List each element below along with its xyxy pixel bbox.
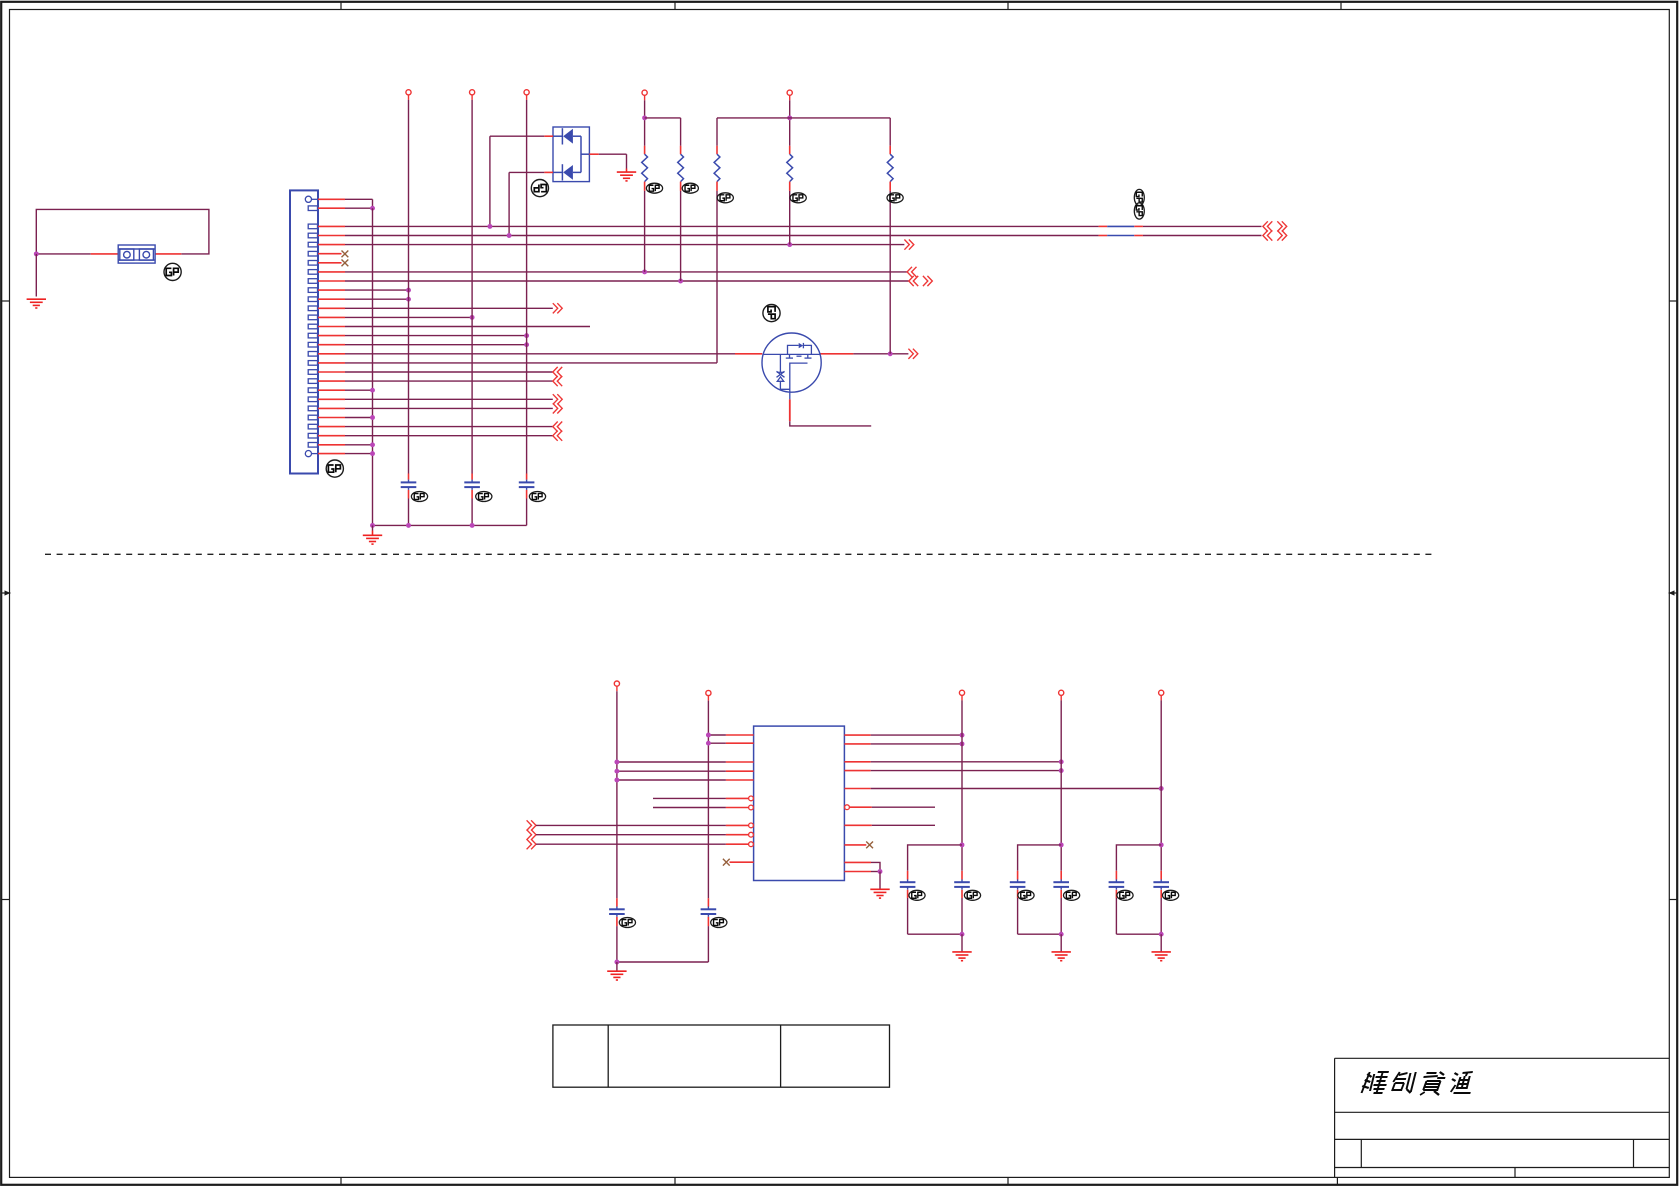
node pair2 bracket bbox=[1059, 842, 1064, 847]
wire pair2 top bracket bbox=[1018, 845, 1062, 871]
node row453-busA bbox=[370, 451, 375, 456]
label GP diode (rotated) bbox=[531, 180, 548, 197]
terminal circle bus C bbox=[470, 90, 475, 95]
capacitor CV1 bbox=[616, 907, 618, 910]
frame tick right 2 bbox=[1669, 899, 1677, 901]
chevron bus3 output bbox=[904, 240, 909, 250]
node V3 row735 bbox=[960, 733, 965, 738]
wire rail ground stem bbox=[372, 525, 374, 530]
wire U1 right row 743.9 bbox=[844, 743, 870, 745]
wire pin row 253.7 no-connect bbox=[318, 253, 342, 255]
wire diode input 2 bbox=[544, 171, 553, 173]
wire R5 bottom bbox=[889, 191, 891, 354]
ground pair1 bbox=[952, 952, 971, 961]
wire pin row 417.5 bbox=[318, 417, 345, 419]
wire pin row 426.6 input bbox=[318, 426, 345, 428]
connector CN1 body bbox=[290, 190, 318, 473]
connector pin box 4 bbox=[308, 233, 317, 238]
connector pin box 24 bbox=[308, 415, 317, 420]
connector pin box 21 bbox=[308, 388, 317, 393]
wire pair3 main vertical bbox=[1160, 700, 1162, 870]
wire left segment to jumper bbox=[36, 253, 90, 255]
connector pin box 23 bbox=[308, 406, 317, 411]
ground top-left bbox=[27, 299, 46, 308]
wire pin row 399.3 output bbox=[318, 398, 345, 400]
node V2 row735 bbox=[706, 733, 711, 738]
label GP pair1 left bbox=[909, 890, 925, 900]
wire pin row 408.4 output bbox=[318, 407, 345, 409]
terminal circle R4 bbox=[787, 90, 792, 95]
chevron mosfet output bbox=[908, 349, 913, 359]
capacitor CB bbox=[408, 480, 410, 483]
label GP cap D bbox=[411, 492, 427, 502]
label GP pair1 right bbox=[964, 890, 980, 900]
wire bus2 horizontal bbox=[318, 235, 345, 237]
wire U1 right row 761.8 bbox=[844, 761, 870, 763]
wire U1 pin row 825.4 from input chevron bbox=[527, 820, 532, 830]
ground left pair bbox=[607, 971, 626, 980]
node bus5-R2 bbox=[678, 279, 683, 284]
connector pin box 6 bbox=[308, 251, 317, 256]
chevron row 435.7 input bbox=[553, 431, 558, 441]
capacitor pair2 right bbox=[1060, 879, 1062, 882]
wire pair1 ground stem bbox=[961, 934, 963, 951]
dual diode D1 box bbox=[553, 127, 589, 182]
wire pin2 row bbox=[318, 207, 345, 209]
capacitor pair2 left bbox=[1017, 871, 1019, 880]
frame tick top 2 bbox=[674, 2, 676, 10]
wire pin row 290.1 bbox=[318, 289, 345, 291]
capacitor pair3 right bbox=[1160, 879, 1162, 882]
chevron row 408.4 output bbox=[553, 403, 558, 413]
wire pin row 372.0 input bbox=[318, 371, 345, 373]
connector pin box 2 bbox=[308, 206, 317, 211]
wire to ground top-left bbox=[35, 254, 37, 297]
wire bus5 row bbox=[318, 280, 345, 282]
connector pin last circle bbox=[305, 451, 318, 457]
wire R4 top vertical bbox=[789, 100, 791, 146]
wire U1 right row 871.5 bbox=[844, 871, 871, 873]
resistor R2 bbox=[680, 146, 682, 154]
node pair1 bottom bbox=[960, 932, 965, 937]
node rail A bbox=[370, 523, 375, 528]
wire R4 bottom bbox=[789, 191, 791, 245]
wire pin row 444.8 bbox=[318, 444, 345, 446]
node left rail bbox=[614, 960, 619, 965]
node row444-busA bbox=[370, 442, 375, 447]
wire bus1 horizontal bbox=[318, 225, 345, 227]
node V2 row743 bbox=[706, 741, 711, 746]
connector pin box 22 bbox=[308, 397, 317, 402]
label GP R5 bbox=[887, 193, 903, 203]
resistor R4 bbox=[789, 146, 791, 154]
node row344-busD bbox=[524, 342, 529, 347]
wire U1 ground stem bbox=[879, 872, 881, 889]
wire bus D vertical bbox=[526, 100, 528, 474]
terminal circle V1 bbox=[614, 681, 619, 686]
chevron bus2 bidirectional bbox=[1263, 230, 1268, 240]
wire pair3 top bracket bbox=[1116, 845, 1161, 871]
frame tick left 1 bbox=[2, 300, 10, 302]
chevron bus5 output bbox=[923, 276, 928, 286]
wire bus4 row bbox=[318, 271, 345, 273]
ground pair3 bbox=[1152, 952, 1171, 961]
label GP R3 bbox=[717, 193, 733, 203]
wire U1 right row 825.3 bbox=[844, 824, 871, 826]
wire pin row 390.2 bbox=[318, 389, 345, 391]
connector pin box 17 bbox=[308, 352, 317, 357]
wire pin row 308.3 output bbox=[318, 307, 345, 309]
label GP pair2 right bbox=[1064, 890, 1080, 900]
node rail C bbox=[470, 523, 475, 528]
chevron row 426.6 input bbox=[553, 422, 558, 432]
node row335-busD bbox=[524, 333, 529, 338]
terminal circle bus D bbox=[524, 90, 529, 95]
IC U1 body bbox=[754, 726, 845, 880]
node R1 top rail bbox=[642, 115, 647, 120]
wire ground rail bbox=[373, 524, 527, 526]
wire V1 vertical bbox=[616, 691, 618, 898]
frame tick left 2 bbox=[2, 899, 10, 901]
wire R3-R5 top rail bbox=[717, 117, 890, 119]
wire U1 pin row 834.7 from input chevron bbox=[527, 830, 532, 840]
wire U1 right row 862.4 bbox=[844, 861, 871, 863]
node diode2-bus2 bbox=[507, 233, 512, 238]
no-connect X U1 right bbox=[866, 842, 873, 849]
terminal circle pair1 bbox=[959, 690, 964, 695]
connector pin box 16 bbox=[308, 342, 317, 347]
terminal circle bus B bbox=[406, 90, 411, 95]
connector pin box 25 bbox=[308, 424, 317, 429]
node row317-busC bbox=[470, 315, 475, 320]
connector pin box 8 bbox=[308, 270, 317, 275]
title block company logo text bbox=[1360, 1072, 1476, 1095]
chevron row 381.1 input bbox=[553, 376, 558, 386]
ground pair2 bbox=[1052, 952, 1071, 961]
wire R1 top bbox=[644, 100, 646, 146]
node V4 row770 bbox=[1059, 768, 1064, 773]
chevron row308 output bbox=[553, 303, 558, 313]
connector pin box 3 bbox=[308, 224, 317, 229]
label GP R4 bbox=[790, 193, 806, 203]
wire pin row 335.6 bbox=[318, 335, 345, 337]
wire row 362.9 gate net bbox=[318, 362, 345, 364]
MOSFET Q1 internals bbox=[763, 343, 820, 400]
terminal circle pair2 bbox=[1059, 690, 1064, 695]
node row390-busA bbox=[370, 388, 375, 393]
ground diode output bbox=[617, 172, 636, 181]
wire U1 pin row 735.0 bbox=[708, 734, 726, 736]
label GP bus2 (rotated) bbox=[1134, 203, 1144, 219]
wire bus3 row bbox=[318, 244, 345, 246]
wire pin row 344.7 bbox=[318, 344, 345, 346]
wire pin row 262.8 no-connect bbox=[318, 262, 342, 264]
wire MOSFET source down bbox=[789, 399, 791, 421]
wire bus C vertical bbox=[471, 100, 473, 474]
frame centering arrow right bbox=[1669, 590, 1678, 595]
capacitor pair1 right bbox=[961, 879, 963, 882]
ground U1 bbox=[870, 889, 889, 898]
connector pin box 11 bbox=[308, 297, 317, 302]
no-connect X U1 left bbox=[723, 859, 730, 866]
wire diode input 1 bbox=[544, 135, 553, 137]
chevron bus4 input bbox=[907, 267, 912, 277]
wire pin row 453.6 bbox=[318, 453, 345, 455]
revision table bbox=[553, 1025, 890, 1087]
jumper J1 bbox=[118, 245, 155, 263]
label GP MOSFET (rotated) bbox=[763, 305, 780, 322]
label GP pair3 right bbox=[1163, 890, 1179, 900]
label GP CV1 bbox=[619, 918, 635, 928]
node pair3 bracket bbox=[1159, 842, 1164, 847]
connector pin 1 circle bbox=[305, 196, 318, 202]
node bus A top bbox=[370, 206, 375, 211]
node V3 row743 bbox=[960, 741, 965, 746]
dashed separator line bbox=[45, 553, 1434, 555]
wire U1 pin row 743.2 bbox=[708, 742, 726, 744]
resistor R3 bbox=[716, 146, 718, 154]
wire pin row 381.1 input bbox=[318, 380, 345, 382]
MOSFET Q1 circle bbox=[762, 333, 821, 392]
wire left ground stem bbox=[616, 962, 618, 971]
wire pin row 299.2 bbox=[318, 298, 345, 300]
wire U1 pin row 771.2 bbox=[617, 770, 726, 772]
wire U1 right row 788.5 bbox=[844, 788, 870, 790]
node V5 row788 bbox=[1159, 786, 1164, 791]
wire right stub of jumper bbox=[155, 253, 181, 255]
wire pair2 bottom rail bbox=[1018, 933, 1062, 935]
capacitor CV2 bbox=[707, 907, 709, 910]
wire U1 pin row 844.2 from input chevron bbox=[527, 839, 532, 849]
node V4 row761 bbox=[1059, 759, 1064, 764]
ground rail symbol bbox=[363, 535, 382, 544]
wire U1 pin row 780.0 bbox=[617, 779, 726, 781]
wire loop top-left bbox=[36, 209, 209, 254]
wire bus A vertical bbox=[372, 208, 374, 525]
frame tick top 4 bbox=[1340, 2, 1342, 10]
node pair1 bracket bbox=[960, 842, 965, 847]
label GP connector bbox=[326, 460, 343, 477]
wire U1 pin row 798.4 (bubble) bbox=[653, 797, 726, 799]
node R5-mosfet out bbox=[888, 351, 893, 356]
connector pin box 20 bbox=[308, 379, 317, 384]
connector pin box 12 bbox=[308, 306, 317, 311]
node V1 row762.0 bbox=[614, 760, 619, 765]
frame tick bottom 1 bbox=[340, 1177, 342, 1184]
node bus3-R4 bbox=[787, 242, 792, 247]
wire pin1 row bbox=[318, 198, 345, 200]
capacitor pair1 left bbox=[907, 871, 909, 880]
wire pin row 326.5 bbox=[318, 326, 345, 328]
connector pin box 9 bbox=[308, 279, 317, 284]
chevron row 399.3 output bbox=[553, 394, 558, 404]
label GP pair2 left bbox=[1018, 890, 1034, 900]
resistor R5 bbox=[889, 146, 891, 154]
label GP pair3 left bbox=[1117, 890, 1133, 900]
no-connect X 2 bbox=[342, 260, 349, 267]
capacitor CD bbox=[526, 480, 528, 483]
wire MOSFET source to output bbox=[820, 353, 853, 355]
node diode1-bus1 bbox=[487, 224, 492, 229]
wire pair1 top bracket bbox=[908, 845, 962, 871]
connector pin box 10 bbox=[308, 288, 317, 293]
wire V2 vertical bbox=[707, 701, 709, 899]
wire U1 pin row 762.0 bbox=[617, 761, 726, 763]
frame centering arrow left bbox=[2, 590, 11, 595]
wire pair2 ground stem bbox=[1060, 934, 1062, 951]
connector pin box 19 bbox=[308, 370, 317, 375]
label GP R1 bbox=[646, 183, 662, 193]
chevron bus5 input bbox=[909, 276, 914, 286]
node R4 top rail bbox=[787, 115, 792, 120]
terminal circle R1 bbox=[642, 90, 647, 95]
terminal circle V2 bbox=[706, 690, 711, 695]
wire pin row 317.4 bbox=[318, 316, 345, 318]
resistor R1 bbox=[644, 146, 646, 154]
wire pair3 ground stem bbox=[1160, 934, 1162, 951]
wire R2 bottom bbox=[680, 191, 682, 281]
connector pin box 15 bbox=[308, 333, 317, 338]
label GP top-left bbox=[164, 263, 181, 280]
wire R1 bottom bbox=[644, 191, 646, 272]
chevron bus1 bidirectional bbox=[1263, 221, 1268, 231]
wire bus B vertical bbox=[408, 100, 410, 474]
chevron row 372.0 input bbox=[553, 367, 558, 377]
node row417-busA bbox=[370, 415, 375, 420]
wire left pair bottom rail bbox=[617, 961, 709, 963]
wire pair1 bottom rail bbox=[908, 933, 962, 935]
wire R1-R2 top rail bbox=[645, 117, 681, 119]
title block frame bbox=[1335, 1058, 1670, 1184]
wire U1 right row 770.6 bbox=[844, 770, 870, 772]
connector pin box 27 bbox=[308, 443, 317, 448]
node junction top-left bbox=[34, 251, 39, 256]
node row299-busB bbox=[406, 297, 411, 302]
node bus4-R1 bbox=[642, 269, 647, 274]
wire U1 right row 735.1 bbox=[844, 734, 870, 736]
frame tick right 1 bbox=[1669, 300, 1677, 302]
capacitor CC bbox=[471, 480, 473, 483]
wire U1 right row 844.9 no-connect bbox=[844, 844, 866, 846]
connector pin box 14 bbox=[308, 324, 317, 329]
terminal circle pair3 bbox=[1159, 690, 1164, 695]
node U1 gnd join bbox=[878, 869, 883, 874]
frame tick top 3 bbox=[1007, 2, 1009, 10]
node rail B bbox=[406, 523, 411, 528]
frame tick bottom 2 bbox=[674, 1177, 676, 1184]
label GP bus1 (rotated) bbox=[1134, 189, 1144, 205]
node row290-busB bbox=[406, 288, 411, 293]
node V1 row771.2 bbox=[614, 769, 619, 774]
connector pin box 5 bbox=[308, 242, 317, 247]
dual diode D1 internals bbox=[553, 128, 589, 180]
wire U1 right row 807.2 (bubble) bbox=[845, 805, 850, 810]
wire pair2 main vertical bbox=[1060, 700, 1062, 870]
wire U1 pin row 807.5 (bubble) bbox=[653, 807, 726, 809]
wire U1 pin row 862.2 no-connect bbox=[730, 861, 754, 863]
connector pin box 18 bbox=[308, 361, 317, 366]
wire diode output bbox=[589, 153, 598, 155]
connector pin box 13 bbox=[308, 315, 317, 320]
no-connect X 1 bbox=[342, 251, 349, 258]
node V1 row780.0 bbox=[614, 778, 619, 783]
frame tick bottom 3 bbox=[1007, 1177, 1009, 1184]
node pair3 bottom bbox=[1159, 932, 1164, 937]
connector pin box 7 bbox=[308, 261, 317, 266]
label GP R2 bbox=[682, 183, 698, 193]
wire pair3 bottom rail bbox=[1116, 933, 1161, 935]
frame tick top 1 bbox=[340, 2, 342, 10]
label GP CV2 bbox=[711, 918, 727, 928]
connector pin box 26 bbox=[308, 433, 317, 438]
wire pair1 main vertical bbox=[961, 700, 963, 870]
capacitor pair3 left bbox=[1115, 871, 1117, 880]
node pair2 bottom bbox=[1059, 932, 1064, 937]
wire row 353.8 to MOSFET drain bbox=[318, 353, 345, 355]
wire R3 bottom to gate net bbox=[716, 191, 718, 363]
wire pin row 435.7 input bbox=[318, 435, 345, 437]
